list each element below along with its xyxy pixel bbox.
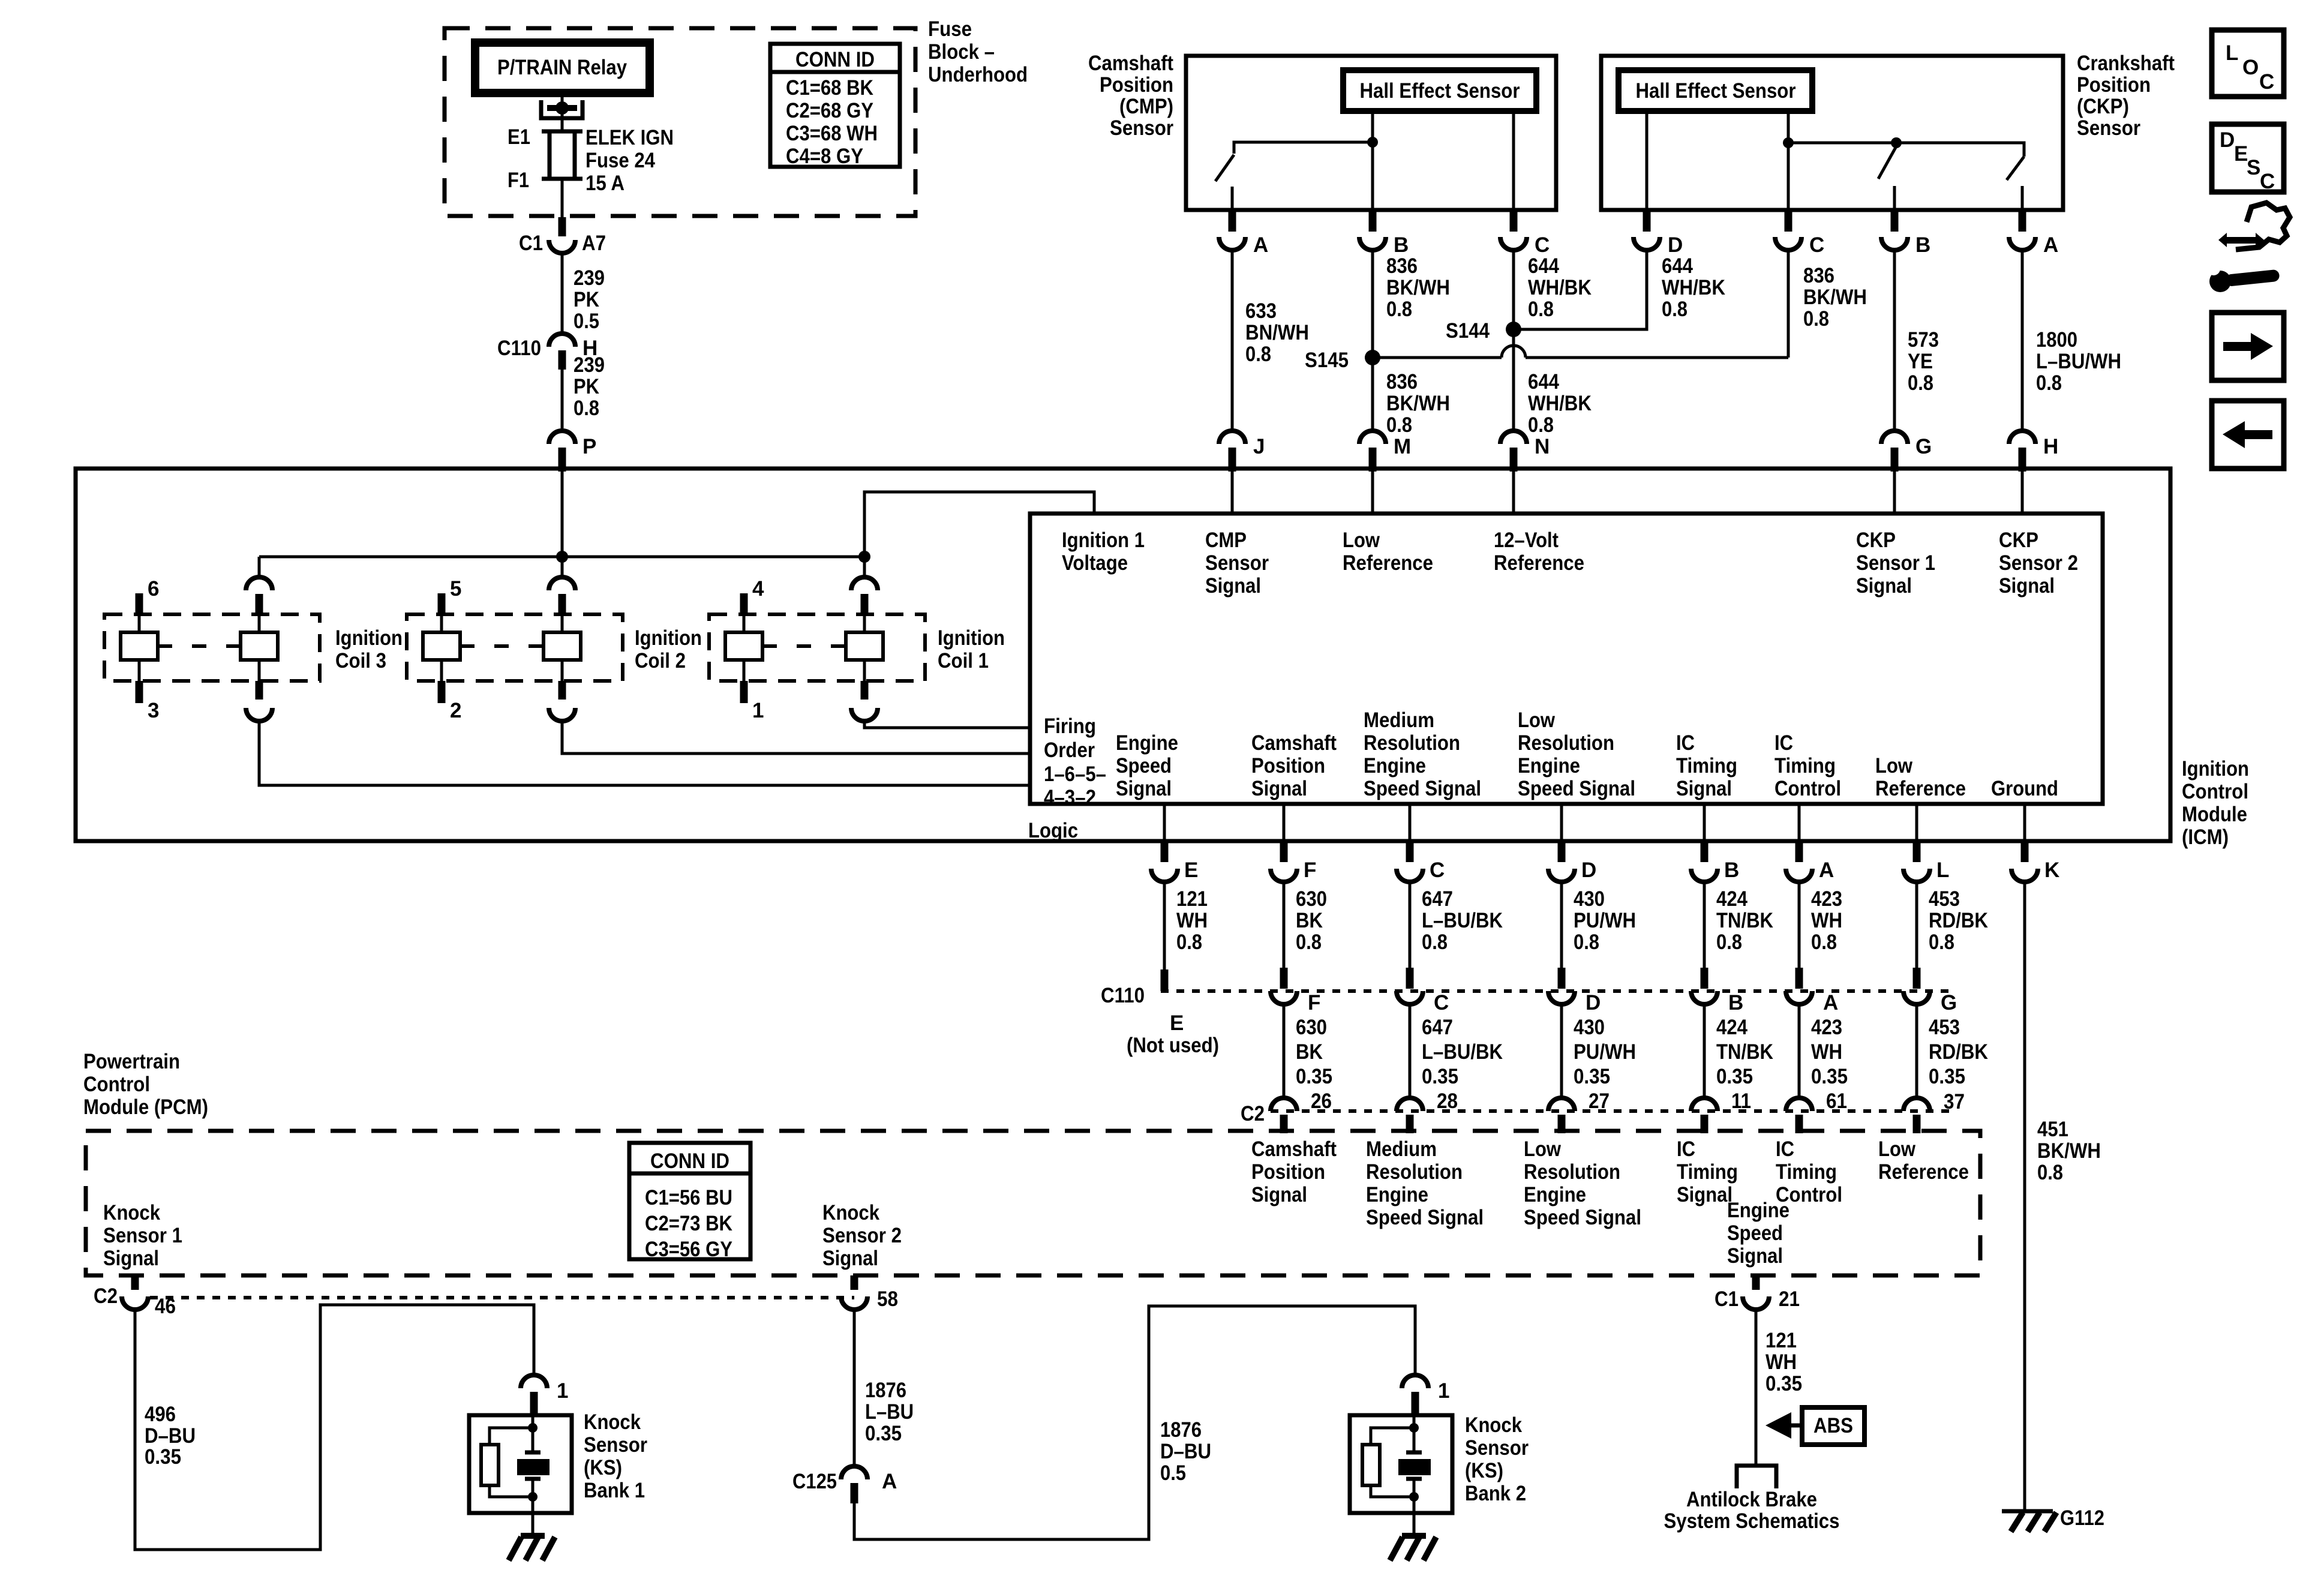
connector C2 pin 11 [1691, 1089, 1751, 1133]
splice S145 [1305, 349, 1380, 372]
svg-text:Sensor 1: Sensor 1 [103, 1224, 182, 1247]
svg-text:C1=68 BK: C1=68 BK [786, 76, 873, 100]
svg-text:121: 121 [1176, 887, 1208, 911]
connector pin 58 [841, 1275, 898, 1311]
connector C2 pin 27 [1548, 1089, 1610, 1133]
svg-text:Signal: Signal [1251, 777, 1307, 800]
connector pin K (ICM output) [2011, 841, 2059, 882]
svg-text:Speed: Speed [1727, 1221, 1783, 1245]
connector pin J [1219, 431, 1265, 472]
svg-text:0.8: 0.8 [1176, 930, 1202, 954]
svg-text:J: J [1253, 435, 1265, 458]
wire 630 BK 0.8 (F) [1284, 882, 1327, 971]
icon repair tools [2207, 203, 2290, 292]
C110 pin E not used [1127, 969, 1219, 1057]
svg-text:Signal: Signal [103, 1247, 159, 1270]
wire 644 WH/BK 0.8 (CMP C upper) [1514, 250, 1592, 329]
svg-text:Block –: Block – [928, 40, 995, 64]
svg-text:Signal: Signal [1677, 1183, 1733, 1206]
svg-text:(CKP): (CKP) [2077, 95, 2129, 118]
svg-text:0.8: 0.8 [1929, 930, 1954, 954]
svg-text:A7: A7 [582, 232, 606, 255]
svg-text:Engine: Engine [1524, 1183, 1586, 1206]
svg-text:Camshaft: Camshaft [1251, 1137, 1337, 1161]
relay K1 P/TRAIN Relay [475, 43, 650, 93]
svg-text:L–BU/BK: L–BU/BK [1422, 909, 1503, 932]
svg-text:Timing: Timing [1774, 754, 1836, 778]
connector pin L (ICM output) [1903, 841, 1949, 882]
svg-text:C2: C2 [94, 1284, 118, 1308]
svg-text:C3=68 WH: C3=68 WH [786, 122, 878, 145]
svg-text:IC: IC [1774, 731, 1793, 755]
svg-text:Control: Control [2182, 780, 2248, 803]
off-page reference bracket (antilock brake) [1737, 1466, 1776, 1488]
svg-text:Knock: Knock [1465, 1413, 1522, 1437]
svg-text:C: C [1430, 858, 1445, 882]
wire 836 BK/WH 0.8 (CKP C) [1788, 250, 1867, 358]
svg-text:27: 27 [1589, 1089, 1610, 1113]
svg-text:0.8: 0.8 [1811, 930, 1837, 954]
hall effect sensor (CKP) [1619, 70, 1812, 111]
svg-text:Low: Low [1518, 709, 1556, 732]
svg-text:11: 11 [1731, 1089, 1751, 1113]
svg-text:647: 647 [1422, 1016, 1453, 1039]
svg-text:121: 121 [1765, 1329, 1797, 1352]
connector pin D (ICM output) [1548, 841, 1596, 882]
svg-text:Reference: Reference [1878, 1160, 1969, 1184]
svg-text:Knock: Knock [103, 1201, 160, 1224]
svg-text:RD/BK: RD/BK [1929, 909, 1988, 932]
svg-text:Engine: Engine [1727, 1199, 1789, 1222]
svg-text:644: 644 [1528, 370, 1559, 394]
wire 121 WH 0.8 (E) [1164, 882, 1208, 971]
svg-text:Speed Signal: Speed Signal [1364, 777, 1481, 800]
svg-text:B: B [1728, 991, 1743, 1014]
svg-text:4–3–2: 4–3–2 [1044, 786, 1096, 809]
svg-text:Signal: Signal [1205, 574, 1261, 598]
svg-text:D–BU: D–BU [145, 1424, 196, 1448]
svg-text:Signal: Signal [1727, 1244, 1783, 1268]
svg-text:Logic: Logic [1028, 819, 1078, 842]
svg-text:E: E [1170, 1011, 1184, 1035]
icon arrow right box [2212, 313, 2284, 380]
CMP sensor box [1186, 56, 1556, 210]
svg-text:0.8: 0.8 [1716, 930, 1742, 954]
svg-text:CKP: CKP [1856, 529, 1896, 552]
svg-text:Position: Position [2077, 73, 2151, 97]
svg-text:Hall Effect Sensor: Hall Effect Sensor [1360, 79, 1520, 103]
wire 423 WH 0.8 (A) [1799, 882, 1842, 971]
connector pin M [1359, 431, 1411, 472]
conn id table (fuse block) [770, 44, 900, 168]
svg-text:Bank 1: Bank 1 [584, 1479, 645, 1502]
svg-text:Position: Position [1100, 73, 1173, 97]
svg-text:630: 630 [1296, 887, 1327, 911]
svg-text:Coil 1: Coil 1 [938, 649, 989, 673]
connector pin C (ICM output) [1397, 841, 1445, 882]
knock sensor KS bank 1 [469, 1415, 572, 1513]
splice S144 [1446, 319, 1521, 343]
svg-text:836: 836 [1803, 264, 1834, 287]
wire K to ground G112 (451 BK/WH segment upper) [2023, 882, 2026, 1511]
svg-text:B: B [1915, 233, 1930, 257]
svg-text:Medium: Medium [1364, 709, 1434, 732]
svg-text:Ignition 1: Ignition 1 [1062, 529, 1145, 552]
svg-text:Underhood: Underhood [928, 63, 1028, 86]
svg-text:Ignition: Ignition [2182, 757, 2249, 781]
svg-text:S145: S145 [1305, 349, 1349, 372]
svg-text:A: A [1819, 858, 1834, 882]
svg-text:0.8: 0.8 [1908, 371, 1933, 395]
svg-text:D: D [1586, 991, 1601, 1014]
svg-text:IC: IC [1776, 1137, 1794, 1161]
wire 121 WH 0.35 [1756, 1310, 1802, 1466]
svg-text:C: C [1809, 233, 1824, 257]
svg-text:WH: WH [1176, 909, 1208, 932]
svg-text:0.35: 0.35 [865, 1422, 902, 1445]
svg-text:(KS): (KS) [584, 1456, 622, 1479]
wire 633 BN/WH 0.8 [1232, 250, 1309, 431]
svg-text:0.8: 0.8 [1528, 413, 1554, 437]
svg-text:1876: 1876 [865, 1379, 906, 1402]
svg-text:424: 424 [1716, 887, 1747, 911]
svg-text:0.35: 0.35 [1422, 1065, 1458, 1088]
fuse F1 ELEK IGN Fuse 24 15A [508, 125, 674, 195]
svg-text:L: L [1936, 858, 1949, 882]
svg-text:G: G [1941, 991, 1957, 1014]
svg-text:5: 5 [450, 577, 461, 601]
svg-text:430: 430 [1574, 1016, 1605, 1039]
svg-text:Signal: Signal [1999, 574, 2055, 598]
svg-text:CONN ID: CONN ID [650, 1149, 729, 1173]
svg-text:Low: Low [1878, 1137, 1916, 1161]
svg-text:836: 836 [1386, 254, 1418, 278]
svg-text:836: 836 [1386, 370, 1418, 394]
svg-text:0.8: 0.8 [1662, 298, 1688, 321]
svg-text:C1: C1 [519, 232, 543, 255]
svg-text:Control: Control [83, 1073, 150, 1096]
connector pin E (ICM output) [1151, 841, 1198, 882]
connector pin C (CMP) [1500, 210, 1550, 257]
icon LOC box [2212, 30, 2284, 97]
svg-text:Crankshaft: Crankshaft [2077, 52, 2175, 75]
connector C110 pin D [1548, 968, 1601, 1014]
svg-text:BK/WH: BK/WH [1386, 276, 1450, 299]
coil 2 top connector [549, 557, 575, 616]
svg-text:C3=56 GY: C3=56 GY [645, 1238, 732, 1261]
svg-text:Module: Module [2182, 803, 2247, 826]
wires logic box to ICM bottom edge [1163, 804, 1166, 841]
svg-text:573: 573 [1908, 328, 1939, 352]
svg-text:0.8: 0.8 [1574, 930, 1599, 954]
connector pin H [2009, 431, 2058, 472]
svg-text:0.35: 0.35 [1929, 1065, 1965, 1088]
svg-text:647: 647 [1422, 887, 1453, 911]
svg-text:Signal: Signal [822, 1247, 878, 1270]
wire 1876 L-BU 0.35 [854, 1310, 914, 1466]
svg-text:Firing: Firing [1044, 715, 1096, 738]
svg-text:61: 61 [1826, 1089, 1847, 1113]
svg-text:Sensor: Sensor [1205, 551, 1269, 575]
svg-text:Sensor: Sensor [584, 1433, 647, 1457]
icon arrow left box [2212, 401, 2284, 469]
svg-text:Voltage: Voltage [1062, 551, 1128, 575]
svg-text:A: A [1823, 991, 1838, 1014]
svg-text:PK: PK [574, 375, 599, 398]
svg-text:Speed Signal: Speed Signal [1524, 1206, 1641, 1229]
svg-text:(Not used): (Not used) [1127, 1034, 1219, 1057]
svg-text:TN/BK: TN/BK [1716, 1040, 1773, 1064]
svg-text:3: 3 [148, 699, 159, 722]
svg-text:0.35: 0.35 [1574, 1065, 1610, 1088]
connector C2 pin 46 [94, 1275, 176, 1318]
svg-text:D: D [1668, 233, 1683, 257]
svg-text:C110: C110 [497, 337, 541, 360]
ignition coil 1 primary pins [725, 593, 883, 703]
svg-text:644: 644 [1662, 254, 1693, 278]
wire 453 RD/BK 0.8 (L) [1917, 882, 1988, 971]
svg-text:WH/BK: WH/BK [1662, 276, 1725, 299]
svg-text:C2=73 BK: C2=73 BK [645, 1212, 732, 1235]
svg-text:A: A [882, 1470, 897, 1493]
svg-text:Camshaft: Camshaft [1251, 731, 1337, 755]
svg-text:239: 239 [574, 353, 605, 377]
connector C110 pin H [497, 334, 597, 370]
ICM ignition control module box [76, 469, 2170, 841]
svg-text:BK: BK [1296, 1040, 1323, 1064]
connector pin G [1881, 431, 1932, 472]
svg-text:P/TRAIN Relay: P/TRAIN Relay [497, 56, 627, 79]
svg-text:Ignition: Ignition [938, 626, 1005, 650]
svg-text:0.8: 0.8 [1803, 307, 1829, 331]
svg-text:D–BU: D–BU [1160, 1440, 1211, 1463]
svg-text:O: O [2242, 56, 2259, 79]
ignition coil 3 primary pins [121, 593, 278, 703]
svg-text:1800: 1800 [2036, 328, 2077, 352]
svg-text:1: 1 [557, 1379, 568, 1403]
connector pin A (ICM output) [1786, 841, 1834, 882]
wire P feed into bus [561, 462, 564, 557]
svg-text:P: P [582, 435, 596, 458]
svg-text:Timing: Timing [1776, 1160, 1837, 1184]
svg-text:Low: Low [1343, 529, 1380, 552]
svg-text:0.8: 0.8 [2036, 371, 2062, 395]
svg-text:Fuse: Fuse [928, 17, 972, 41]
CKP sensor box [1601, 56, 2063, 210]
wire 423 WH 0.35 (A lower) [1799, 1004, 1848, 1098]
ABS reference box and arrow [1765, 1407, 1864, 1445]
svg-text:F: F [1304, 858, 1316, 882]
relay contact symbol [541, 100, 582, 118]
svg-text:PU/WH: PU/WH [1574, 909, 1636, 932]
svg-text:453: 453 [1929, 887, 1960, 911]
svg-text:0.8: 0.8 [1245, 343, 1271, 366]
svg-text:4: 4 [752, 577, 764, 601]
fuse block underhood dashed box [445, 28, 915, 216]
svg-text:H: H [2043, 435, 2058, 458]
wire splice S145 horizontal with hop [1373, 356, 1502, 359]
svg-text:D: D [1581, 858, 1596, 882]
connector C110 pin A [1786, 968, 1838, 1014]
svg-text:Ignition: Ignition [635, 626, 702, 650]
wire 430 PU/WH 0.35 (D lower) [1562, 1004, 1636, 1098]
connector pin D (CKP) [1634, 210, 1683, 257]
wire 453 RD/BK 0.35 (G lower) [1917, 1004, 1988, 1098]
ignition coil 3 dashed box [104, 614, 320, 681]
svg-text:0.5: 0.5 [574, 310, 599, 333]
connector KS2 pin 1 [1402, 1375, 1449, 1415]
wire 647 L–BU/BK 0.8 (C) [1410, 882, 1503, 971]
connector pin B (CMP) [1359, 210, 1409, 257]
wire 1800 L-BU/WH 0.8 [2022, 250, 2121, 431]
svg-text:423: 423 [1811, 887, 1842, 911]
svg-text:L–BU/WH: L–BU/WH [2036, 350, 2121, 373]
connector pin B (CKP) [1881, 210, 1930, 257]
hall effect sensor (CMP) [1343, 70, 1536, 111]
wire 644 WH/BK 0.8 (CKP D) [1514, 250, 1725, 329]
svg-text:WH: WH [1811, 909, 1842, 932]
svg-text:Position: Position [1251, 754, 1325, 778]
svg-text:451: 451 [2037, 1118, 2068, 1141]
svg-text:Ignition: Ignition [335, 626, 403, 650]
svg-text:Resolution: Resolution [1364, 731, 1460, 755]
svg-text:Engine: Engine [1518, 754, 1580, 778]
svg-text:System Schematics: System Schematics [1664, 1509, 1840, 1533]
svg-text:C1: C1 [1715, 1287, 1739, 1311]
svg-text:PK: PK [574, 288, 599, 311]
svg-text:15 A: 15 A [585, 172, 624, 195]
svg-text:L: L [2226, 41, 2238, 65]
svg-text:Position: Position [1251, 1160, 1325, 1184]
svg-text:Timing: Timing [1676, 754, 1737, 778]
svg-text:Camshaft: Camshaft [1088, 52, 1173, 75]
svg-text:Speed Signal: Speed Signal [1518, 777, 1635, 800]
svg-text:S144: S144 [1446, 319, 1490, 343]
junction bus/coil1 [858, 551, 870, 563]
ground (KS2) [1390, 1513, 1436, 1560]
wire 630 BK 0.35 (F lower) [1284, 1004, 1332, 1098]
wire ignition 1 voltage hook into logic box [864, 492, 1094, 557]
svg-text:Medium: Medium [1366, 1137, 1437, 1161]
connector C125 pin A [792, 1466, 897, 1503]
svg-text:Speed: Speed [1116, 754, 1172, 778]
coil 3 top connector [246, 557, 272, 616]
svg-text:E1: E1 [508, 125, 530, 149]
connector pin A (CMP) [1219, 210, 1268, 257]
svg-text:Coil 3: Coil 3 [335, 649, 386, 673]
svg-text:Sensor 2: Sensor 2 [822, 1224, 902, 1247]
svg-text:WH/BK: WH/BK [1528, 276, 1592, 299]
wire 573 YE 0.8 [1894, 250, 1939, 431]
ground G112 [2002, 1506, 2104, 1532]
svg-text:A: A [2043, 233, 2058, 257]
svg-text:0.8: 0.8 [1386, 298, 1412, 321]
svg-text:M: M [1394, 435, 1411, 458]
svg-text:424: 424 [1716, 1016, 1747, 1039]
svg-text:Sensor 2: Sensor 2 [1999, 551, 2078, 575]
svg-text:2: 2 [450, 699, 461, 722]
svg-text:58: 58 [877, 1287, 898, 1311]
svg-text:Resolution: Resolution [1524, 1160, 1620, 1184]
svg-text:0.8: 0.8 [2037, 1161, 2063, 1184]
svg-text:423: 423 [1811, 1016, 1842, 1039]
svg-text:E: E [2234, 142, 2248, 166]
connector KS1 pin 1 [521, 1375, 568, 1415]
svg-text:K: K [2044, 858, 2059, 882]
wire 647 L–BU/BK 0.35 (C lower) [1410, 1004, 1503, 1098]
coil 2 bottom connector [549, 681, 575, 721]
wire 430 PU/WH 0.8 (D) [1562, 882, 1636, 971]
svg-text:Knock: Knock [822, 1201, 879, 1224]
svg-text:0.35: 0.35 [1296, 1065, 1332, 1088]
svg-text:1–6–5–: 1–6–5– [1044, 763, 1106, 786]
svg-text:PU/WH: PU/WH [1574, 1040, 1636, 1064]
svg-text:0.35: 0.35 [1765, 1372, 1802, 1395]
connector C110 pin B [1691, 968, 1743, 1014]
svg-text:C2=68 GY: C2=68 GY [786, 99, 873, 122]
svg-text:239: 239 [574, 266, 605, 290]
svg-text:S: S [2247, 156, 2260, 179]
wire 424 TN/BK 0.35 (B lower) [1704, 1004, 1773, 1098]
svg-text:Signal: Signal [1676, 777, 1732, 800]
svg-text:Speed Signal: Speed Signal [1366, 1206, 1484, 1229]
ignition coil 2 primary pins [423, 593, 581, 703]
svg-text:Engine: Engine [1116, 731, 1178, 755]
svg-text:IC: IC [1677, 1137, 1695, 1161]
svg-text:0.8: 0.8 [1422, 930, 1448, 954]
svg-text:12–Volt: 12–Volt [1494, 529, 1559, 552]
svg-text:E: E [1184, 858, 1198, 882]
connector C110 pin C [1397, 968, 1449, 1014]
svg-text:(ICM): (ICM) [2182, 825, 2229, 849]
svg-text:F1: F1 [508, 169, 529, 192]
svg-text:Signal: Signal [1856, 574, 1912, 598]
svg-text:TN/BK: TN/BK [1716, 909, 1773, 932]
connector pin P (ICM) [549, 431, 596, 472]
svg-text:Reference: Reference [1875, 777, 1966, 800]
svg-text:C110: C110 [1101, 984, 1145, 1007]
wire 239 PK 0.8 [562, 353, 605, 428]
wire 496 D-BU 0.35 [135, 1305, 534, 1550]
svg-text:26: 26 [1311, 1089, 1332, 1113]
svg-text:(KS): (KS) [1465, 1459, 1503, 1482]
svg-text:ABS: ABS [1813, 1414, 1853, 1437]
svg-text:Engine: Engine [1366, 1183, 1428, 1206]
connector C2 pin 37 [1903, 1090, 1965, 1133]
wire coil 3 to logic [259, 721, 1030, 785]
ignition coil 1 dashed box [709, 614, 925, 681]
svg-text:C125: C125 [792, 1470, 837, 1493]
svg-text:430: 430 [1574, 887, 1605, 911]
ignition feed bus [259, 556, 864, 559]
svg-text:Hall Effect Sensor: Hall Effect Sensor [1636, 79, 1796, 103]
svg-text:Sensor: Sensor [1465, 1436, 1529, 1460]
svg-text:1: 1 [1438, 1379, 1449, 1403]
svg-text:G112: G112 [2060, 1506, 2104, 1530]
svg-text:Timing: Timing [1677, 1160, 1738, 1184]
wire fuse to C1 A7 [561, 179, 564, 217]
svg-text:0.5: 0.5 [1160, 1461, 1186, 1485]
svg-text:IC: IC [1676, 731, 1695, 755]
svg-text:644: 644 [1528, 254, 1559, 278]
svg-text:C: C [2259, 70, 2274, 94]
svg-text:C: C [2260, 170, 2275, 193]
coil 1 bottom connector [851, 681, 878, 721]
svg-text:BK: BK [1296, 909, 1323, 932]
svg-text:YE: YE [1908, 350, 1933, 373]
connector C2 (PCM) dotted line [1271, 1109, 1950, 1113]
svg-text:Sensor: Sensor [1110, 116, 1173, 140]
